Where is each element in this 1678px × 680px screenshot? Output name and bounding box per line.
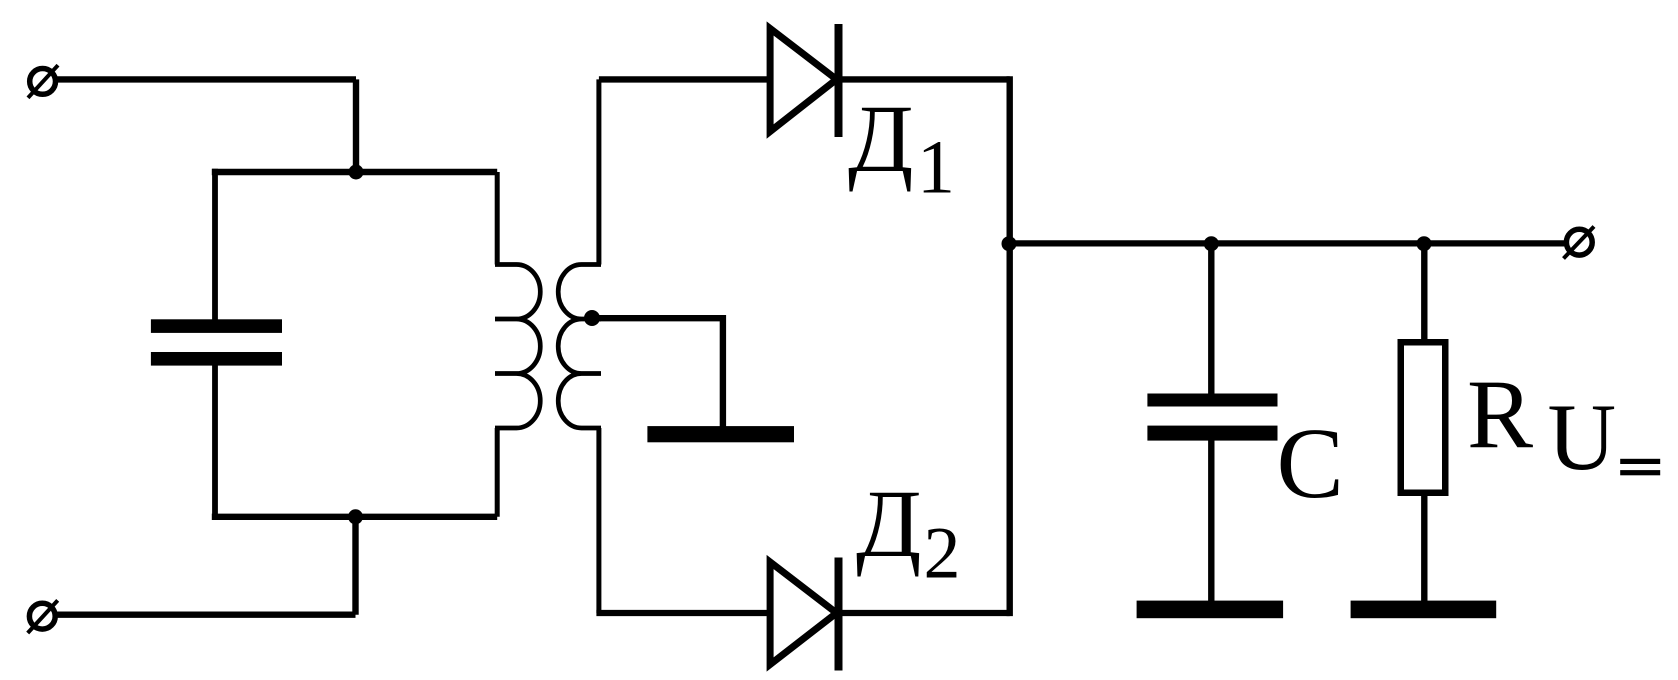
svg-text:Д: Д [856, 470, 921, 577]
wire cathode bus vertical [1007, 76, 1013, 616]
resistor R [1401, 342, 1446, 493]
wire output bus [1010, 240, 1565, 246]
transformer TR1 primary winding [495, 172, 540, 517]
wire left vertical upper [212, 169, 218, 321]
svg-text:C: C [1277, 407, 1344, 519]
wire secondary top to diode D1 [599, 76, 770, 82]
capacitor C (filter) [1147, 394, 1277, 441]
wire diode D1 to node K [841, 76, 1010, 82]
node CT (center tap) junction dot [584, 310, 600, 326]
svg-text:1: 1 [917, 126, 955, 210]
wire center tap vertical [720, 315, 726, 428]
wire from T2 to node B [56, 612, 356, 618]
wire secondary bottom to diode D2 [596, 610, 770, 616]
node K junction dot [1002, 236, 1017, 251]
wire node B vertical [352, 517, 358, 615]
wire node L down to capacitor C [1208, 244, 1214, 395]
ground GND1 (center tap) [647, 426, 794, 442]
svg-text:Д: Д [848, 85, 913, 192]
svg-text:2: 2 [924, 512, 961, 594]
node A junction dot [349, 165, 364, 180]
wire node A vertical [353, 79, 359, 172]
transformer TR1 secondary winding [558, 79, 601, 613]
svg-text:R: R [1467, 361, 1533, 470]
terminal T2 (AC input bottom-left) [28, 600, 58, 633]
terminal T1 (AC input top-left) [28, 65, 58, 98]
wire bottom bus of input tank [212, 514, 497, 520]
node M junction dot (load) [1417, 236, 1432, 251]
ground GND2 (capacitor) [1137, 601, 1284, 619]
node L junction dot (filter cap) [1204, 236, 1219, 251]
node B junction dot [348, 509, 363, 524]
terminal T3 (DC output) [1564, 227, 1595, 259]
svg-text:U: U [1548, 384, 1617, 490]
wire left vertical lower [212, 365, 218, 517]
capacitor C1 (input, left) [151, 319, 282, 365]
ground GND3 (load) [1351, 601, 1497, 619]
diode D2 [770, 558, 838, 671]
wire top bus of input tank [212, 169, 497, 175]
wire diode D2 to node K bottom [841, 610, 1010, 616]
wire from T1 to node A [56, 76, 356, 82]
wire center tap horizontal [592, 315, 723, 321]
wire node M down to resistor R [1421, 244, 1427, 342]
diode D1 [770, 24, 838, 137]
wire capacitor C to ground [1208, 440, 1214, 601]
wire resistor R to ground [1421, 496, 1427, 601]
